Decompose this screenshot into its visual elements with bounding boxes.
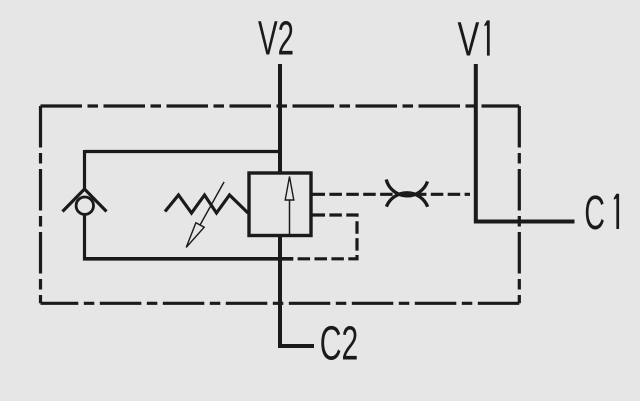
svg-text:C: C [584, 187, 605, 240]
svg-text:V: V [458, 14, 480, 67]
svg-text:V2: V2 [258, 13, 294, 66]
svg-text:C2: C2 [320, 318, 359, 371]
